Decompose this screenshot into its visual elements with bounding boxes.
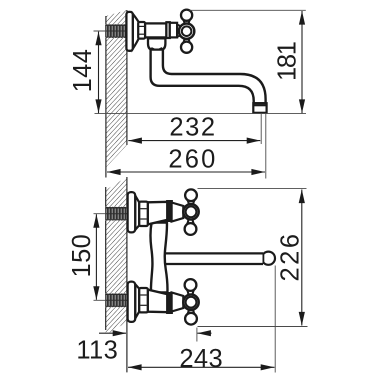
inlet centerline ticks (150) — [94, 213, 129, 215]
dimension 113 extension (handle center) — [196, 328, 198, 342]
dimension 226 top extension — [198, 188, 307, 190]
escutcheon plate — [128, 192, 136, 232]
handle bottom lobe — [181, 42, 192, 53]
wall face line — [126, 10, 128, 145]
dimension 243 — [128, 366, 275, 368]
escutcheon cone — [135, 284, 139, 318]
dimension 150 — [95, 214, 97, 300]
extension line 260 right — [265, 114, 267, 179]
handle neck top — [183, 19, 190, 26]
svg-text:144: 144 — [69, 49, 97, 93]
bottom valve assembly (bottom view, mirrored) — [128, 279, 199, 325]
handle neck bottom — [183, 36, 190, 43]
svg-text:243: 243 — [179, 345, 223, 373]
wall hatch (bottom view) — [106, 177, 127, 335]
escutcheon plate — [128, 282, 136, 322]
collar — [167, 293, 172, 313]
wall face line (bottom) — [126, 177, 128, 372]
handle stem cone — [177, 25, 181, 37]
wall hatch (top view) — [106, 10, 127, 168]
dimension 226 bottom extension — [198, 326, 308, 328]
spout nut — [148, 38, 165, 49]
svg-text:226: 226 — [276, 231, 304, 281]
spout cap junction — [262, 253, 264, 264]
aerator — [253, 103, 266, 113]
dimension 232 — [128, 140, 260, 142]
svg-text:113: 113 — [76, 337, 118, 365]
stem cone — [172, 203, 184, 222]
outlet level line — [95, 112, 307, 114]
handle hub — [183, 295, 198, 310]
hex nut — [139, 288, 148, 312]
handle hub — [183, 204, 198, 219]
handle neck bottom — [187, 289, 194, 297]
handle hub — [179, 24, 194, 39]
handle bottom lobe — [185, 223, 197, 235]
collar ring — [166, 22, 169, 38]
escutcheon cone — [135, 196, 139, 230]
escutcheon cone — [133, 14, 139, 49]
wall back line (bottom) — [105, 187, 107, 330]
spout tube (bottom view) — [166, 253, 263, 264]
dimension 113 — [99, 332, 126, 334]
stem cone — [172, 293, 184, 312]
spout ball end (bottom view) — [262, 252, 275, 265]
dimension 243 extension (spout tip) — [274, 266, 276, 373]
pipe centerline tick (top view) — [94, 30, 128, 32]
escutcheon plate — [126, 12, 132, 51]
handle neck top — [187, 200, 194, 207]
spout (S curve) — [151, 46, 266, 103]
handle top lobe — [185, 313, 197, 325]
dimension 226 — [301, 190, 303, 326]
hex nut — [138, 22, 145, 39]
pipe centerline through threads — [106, 30, 128, 32]
dimension 144 — [98, 32, 100, 114]
extension line 232 right — [260, 114, 262, 144]
body cylinder — [145, 23, 166, 37]
collar — [167, 201, 172, 221]
svg-text:150: 150 — [68, 234, 96, 278]
svg-text:232: 232 — [169, 114, 216, 142]
threaded pipe bottom (bottom view) — [105, 293, 127, 307]
dimension 181 — [301, 11, 303, 113]
handle top lobe — [181, 10, 192, 21]
threaded inlet pipe — [105, 24, 127, 38]
dimension 181 extension line — [190, 9, 306, 11]
top valve assembly (bottom view) — [128, 189, 199, 235]
threaded pipe top (bottom view) — [105, 207, 127, 221]
handle neck bottom — [187, 217, 194, 225]
hex nut — [139, 202, 148, 226]
handle bottom lobe — [185, 279, 197, 291]
handle neck top — [187, 307, 194, 314]
bonnet band — [170, 23, 177, 38]
body column (vase) — [151, 223, 168, 293]
handle top lobe — [185, 189, 197, 201]
wall back line — [105, 16, 107, 178]
svg-text:260: 260 — [168, 146, 217, 174]
svg-text:181: 181 — [274, 42, 302, 81]
body cone — [148, 202, 168, 225]
body cone — [148, 290, 168, 313]
dimension 260 — [107, 171, 265, 173]
